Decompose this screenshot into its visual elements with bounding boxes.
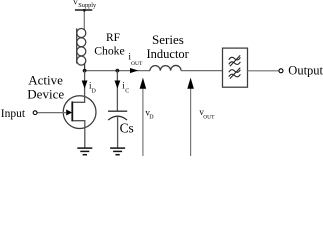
filter wave symbols — [229, 55, 241, 78]
current arrow iD — [82, 81, 88, 89]
filter U1 box — [223, 48, 248, 87]
svg-text:RF: RF — [106, 32, 120, 44]
wire cap to ground — [117, 116, 119, 147]
voltage arrow vOUT — [190, 88, 192, 156]
svg-text:OUT: OUT — [131, 61, 143, 67]
voltage arrow vD — [142, 88, 144, 156]
junction dot drain-rail — [83, 69, 87, 73]
inductor Series — [150, 65, 181, 70]
gate arrowhead — [66, 110, 72, 116]
svg-text:OUT: OUT — [203, 114, 215, 120]
svg-text:Active: Active — [28, 72, 63, 87]
svg-text:Choke: Choke — [94, 44, 125, 57]
svg-text:D: D — [149, 114, 154, 120]
current arrow iOUT — [130, 68, 138, 73]
svg-text:Output: Output — [288, 63, 323, 77]
svg-text:D: D — [92, 88, 97, 94]
wire inductor to filter box — [181, 70, 223, 72]
junction dot at supply tick — [83, 9, 86, 12]
wire supply to choke — [83, 10, 85, 30]
ground source — [77, 148, 92, 155]
wire drain — [73, 71, 84, 103]
inductor RF choke — [77, 28, 86, 70]
svg-text:Input: Input — [1, 108, 26, 120]
svg-text:Supply: Supply — [78, 2, 97, 9]
junction dot cap-rail — [116, 69, 120, 73]
svg-text:Series: Series — [152, 32, 184, 47]
wire main rail left — [85, 70, 150, 72]
svg-text:Device: Device — [27, 86, 64, 101]
supply rail tick — [75, 9, 92, 11]
svg-text:C: C — [125, 88, 129, 94]
svg-text:Inductor: Inductor — [147, 47, 190, 61]
wire input to gate — [37, 112, 66, 114]
wire box to output — [248, 70, 279, 72]
svg-text:Cs: Cs — [120, 120, 134, 135]
current arrow iC — [115, 81, 121, 89]
wire source — [73, 121, 85, 148]
input node — [33, 111, 37, 115]
capacitor Cs — [108, 111, 127, 120]
transistor gate bar — [71, 101, 73, 121]
wire cap branch — [116, 71, 118, 111]
transistor Q1 circle — [63, 96, 96, 129]
output node — [279, 69, 283, 73]
ground cap — [110, 148, 125, 155]
